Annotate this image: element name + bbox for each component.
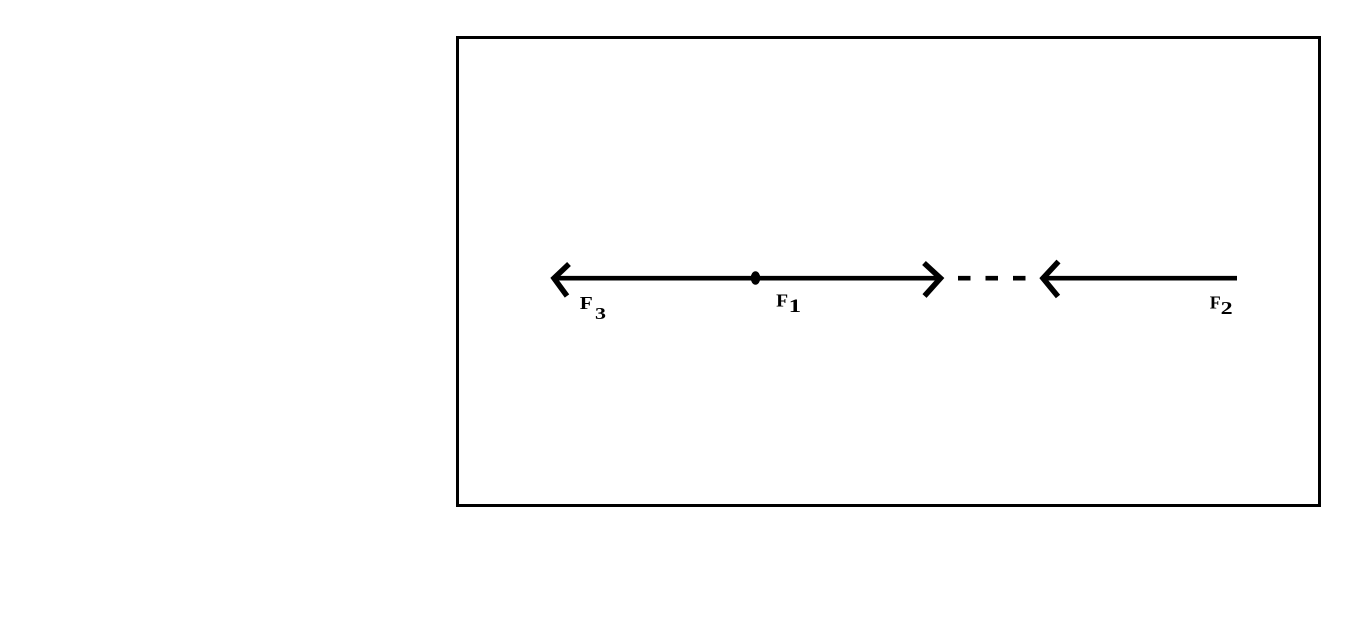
label F3	[580, 293, 606, 323]
svg-text:1: 1	[789, 297, 802, 317]
arrowhead of F3 pointing left	[554, 264, 569, 296]
wire: dashed extension of F2	[958, 276, 1026, 281]
svg-text:F: F	[776, 291, 788, 311]
svg-text:F: F	[580, 293, 593, 313]
svg-text:3: 3	[595, 304, 606, 323]
border frame	[458, 38, 1320, 506]
label F2	[1210, 293, 1233, 319]
wire: F1/F3 force line	[553, 276, 940, 281]
arrowhead of F2 pointing left	[1043, 262, 1059, 297]
arrowhead of F1 pointing right	[924, 263, 941, 296]
label F1	[776, 291, 801, 317]
node A: particle dot on force line	[751, 271, 761, 285]
wire: F2 force line	[1044, 276, 1237, 281]
svg-text:2: 2	[1221, 298, 1233, 318]
svg-text:F: F	[1210, 293, 1221, 313]
